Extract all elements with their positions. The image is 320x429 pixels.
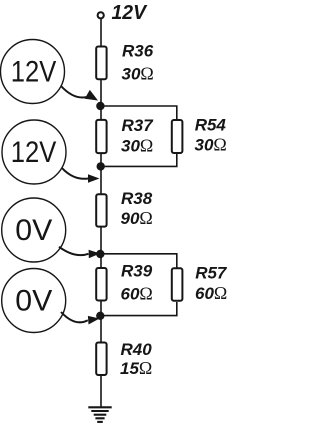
node C junction dot <box>96 250 104 258</box>
svg-text:R57: R57 <box>195 264 228 283</box>
svg-text:R39: R39 <box>121 262 153 281</box>
ground <box>88 407 111 422</box>
svg-text:12V: 12V <box>11 136 57 169</box>
wire node C to R57 top <box>101 254 177 268</box>
wire R54 bottom to node B <box>101 154 177 166</box>
svg-text:30Ω: 30Ω <box>195 135 227 155</box>
wire R38 to node C <box>100 228 102 268</box>
svg-text:12V: 12V <box>112 2 148 24</box>
annotation circle 0V node C <box>2 198 66 262</box>
svg-text:R37: R37 <box>122 116 155 135</box>
wire R40 to ground <box>100 376 102 408</box>
annotation circle 12V node B <box>2 120 66 184</box>
leader arrow to node A <box>61 86 98 101</box>
leader arrow to node D <box>61 312 100 325</box>
resistor R37 <box>96 120 106 153</box>
svg-text:15Ω: 15Ω <box>120 358 152 378</box>
svg-text:12V: 12V <box>11 56 57 89</box>
wire terminal to R36 <box>100 19 102 46</box>
terminal +12V <box>98 12 104 18</box>
resistor R39 <box>96 268 106 301</box>
svg-text:60Ω: 60Ω <box>195 283 227 303</box>
node B junction dot <box>97 162 105 170</box>
svg-text:R40: R40 <box>121 340 153 359</box>
resistor R57 <box>172 268 183 301</box>
svg-text:R54: R54 <box>195 116 227 135</box>
node A junction dot <box>96 102 104 110</box>
wire R37 to node B <box>100 154 102 194</box>
svg-text:30Ω: 30Ω <box>121 136 153 156</box>
resistor R36 <box>96 47 106 80</box>
wire R57 bottom to node D <box>101 302 177 316</box>
svg-text:30Ω: 30Ω <box>122 64 154 84</box>
svg-text:R38: R38 <box>121 189 153 208</box>
annotation circle 12V node A <box>1 40 65 104</box>
resistor R40 <box>96 343 106 376</box>
node D junction dot <box>96 312 104 320</box>
resistor R38 <box>96 194 106 226</box>
leader arrow to node B <box>62 168 99 183</box>
wire R39 to node D <box>100 302 102 343</box>
svg-text:60Ω: 60Ω <box>121 284 153 304</box>
svg-text:90Ω: 90Ω <box>121 208 153 228</box>
wire node A to R54 top <box>101 106 177 120</box>
annotation circle 0V node D <box>2 269 66 333</box>
wire R36 to node A <box>100 80 102 120</box>
svg-text:0V: 0V <box>15 285 52 318</box>
svg-text:R36: R36 <box>122 42 154 61</box>
leader arrow to node C <box>59 247 100 258</box>
svg-text:0V: 0V <box>15 214 52 247</box>
resistor R54 <box>172 120 183 153</box>
